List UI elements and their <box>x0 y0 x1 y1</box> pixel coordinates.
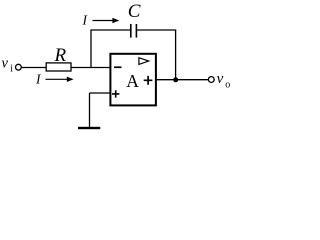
ground <box>78 127 100 129</box>
svg-text:i: i <box>10 64 13 75</box>
op-amp inverting input label minus <box>114 66 122 68</box>
node vo output terminal <box>208 77 214 83</box>
wire ground drop <box>89 93 91 128</box>
svg-text:C: C <box>128 1 141 22</box>
capacitor C plate left <box>130 24 132 38</box>
op-amp ideal gain triangle <box>139 58 149 65</box>
wire op-amp non-inverting input <box>90 92 111 94</box>
op-amp U1 box <box>110 54 155 106</box>
junction dot at output node <box>173 77 178 82</box>
wire feedback top right (capacitor to down-leg) <box>137 29 177 31</box>
op-amp output polarity label plus <box>144 76 153 85</box>
svg-text:v: v <box>217 71 224 87</box>
current arrow I input <box>46 78 71 80</box>
svg-text:I: I <box>35 72 42 87</box>
svg-text:I: I <box>82 12 89 27</box>
wire feedback down to output node <box>175 30 177 80</box>
svg-text:A: A <box>126 71 139 91</box>
capacitor C plate right <box>136 24 138 38</box>
wire feedback up from input node <box>90 30 92 68</box>
node vi input terminal <box>16 64 22 70</box>
svg-text:R: R <box>54 45 67 66</box>
current arrow I feedback <box>93 20 116 22</box>
svg-text:v: v <box>2 56 9 72</box>
wire input (vi terminal to op-amp inverting input) <box>22 67 111 69</box>
resistor R <box>46 63 71 71</box>
wire output (op-amp to vo terminal) <box>157 79 209 81</box>
wire feedback top left (to capacitor) <box>90 29 130 31</box>
op-amp non-inverting input label plus <box>112 90 119 97</box>
svg-text:o: o <box>225 80 230 91</box>
